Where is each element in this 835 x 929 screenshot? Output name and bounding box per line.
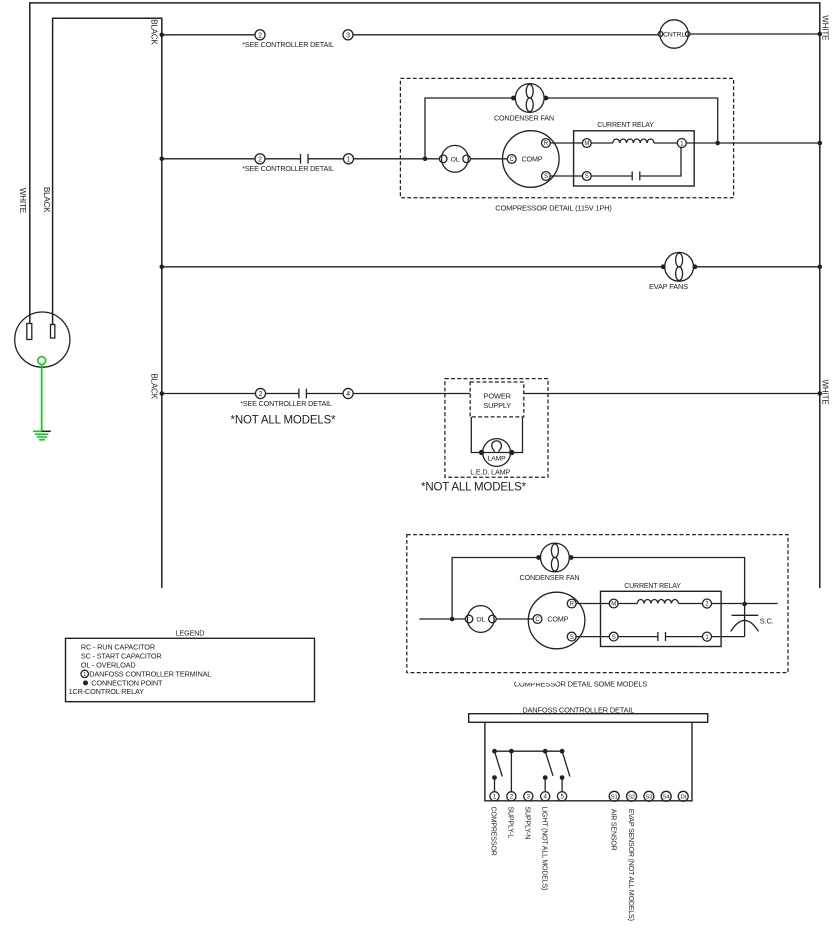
wire S to start capacitor (some models) (618, 636, 657, 638)
wire contact to terminal 4 (544, 778, 546, 792)
wire bus to terminal 2 (510, 751, 512, 792)
svg-text:CURRENT RELAY: CURRENT RELAY (597, 122, 654, 129)
svg-text:S.C.: S.C. (760, 616, 774, 625)
switch blade terminal 1 (495, 751, 503, 776)
legend item connection point (83, 678, 163, 687)
node condenser fan left (511, 96, 516, 101)
svg-text:COMPRESSOR: COMPRESSOR (490, 807, 497, 856)
wire coil to relay terminal 1 (654, 142, 677, 144)
plug P1 neutral blade (27, 324, 32, 340)
svg-text:CONNECTION POINT: CONNECTION POINT (91, 678, 163, 687)
svg-text:*NOT ALL MODELS*: *NOT ALL MODELS* (231, 414, 337, 426)
relay terminal S (some models) (609, 632, 618, 641)
node evap fans left (661, 264, 666, 269)
svg-text:OL: OL (451, 156, 460, 163)
svg-text:S3: S3 (646, 795, 653, 801)
capacitor SC (relay start contact) (632, 171, 640, 180)
relay terminal M (582, 139, 591, 148)
wire M to coil (some models) (618, 603, 637, 605)
legend item danfoss controller terminal (81, 669, 211, 678)
node switch contact terminal 5 (560, 775, 565, 780)
svg-text:M: M (611, 602, 616, 608)
relay terminal 2 (some models) (703, 599, 712, 608)
compressor COMP (some models) (528, 592, 585, 649)
svg-text:S2: S2 (628, 795, 635, 801)
controller terminal 2 (rung1) (255, 30, 265, 40)
controller terminal DI (678, 791, 688, 801)
wire rung2 left segment (162, 158, 255, 160)
wire S to start capacitor (591, 175, 632, 177)
wire capacitor to relay terminal 1 (640, 148, 681, 177)
dashed box POWER SUPPLY (470, 382, 524, 417)
wire stub left (some models) (419, 618, 465, 620)
capacitor (relay start contact, some models) (658, 632, 666, 641)
node lamp left (479, 450, 484, 455)
controller terminal S1 (609, 791, 619, 801)
svg-text:DI: DI (680, 795, 686, 801)
node rung4 / black rail junction (160, 391, 165, 396)
node bus above terminal 4 (543, 749, 548, 754)
svg-text:COMPRESSOR DETAIL (115V 1PH): COMPRESSOR DETAIL (115V 1PH) (495, 204, 611, 213)
node condenser fan right (some models) (569, 555, 574, 560)
motor EVAP FANS (665, 252, 694, 281)
svg-text:S: S (585, 174, 589, 180)
controller terminal 3 (rung1) (343, 30, 353, 40)
svg-text:3: 3 (346, 32, 350, 39)
contact 1CR (rung2) (301, 154, 309, 164)
svg-text:OL - OVERLOAD: OL - OVERLOAD (81, 661, 136, 670)
contact 1CR (rung4) (299, 389, 307, 399)
wire BLACK feed (plug to top corner to drop) (53, 18, 162, 588)
node condenser fan / run wire junction (715, 141, 720, 146)
svg-text:M: M (584, 141, 589, 147)
svg-text:LEGEND: LEGEND (176, 629, 205, 638)
node condenser fan left (some models) (536, 555, 541, 560)
svg-text:4: 4 (346, 391, 350, 398)
wire rung1 to control (354, 34, 658, 36)
wire terminal4 to power supply (354, 393, 471, 395)
motor CONDENSER FAN (115V) (515, 84, 544, 113)
wire condenser fan branch right (some models) (571, 558, 745, 605)
svg-text:1: 1 (347, 156, 351, 163)
svg-text:EVAP FANS: EVAP FANS (649, 282, 688, 291)
wire contact to terminal4 (307, 393, 343, 395)
svg-text:2: 2 (510, 794, 514, 801)
wire relay 1 to white rail (686, 142, 820, 144)
wire rung3 left segment (162, 266, 663, 268)
controller terminal S3 (644, 791, 654, 801)
wire contact to terminal 1 (494, 778, 496, 792)
capacitor S.C. start capacitor (731, 604, 759, 637)
label POWER SUPPLY (483, 392, 511, 411)
svg-text:1: 1 (705, 635, 709, 641)
plug P1 ground pin (38, 357, 46, 365)
controller terminal 1 (rung2) (343, 154, 353, 164)
svg-text:5: 5 (560, 794, 564, 801)
node lamp right (509, 450, 514, 455)
controller terminal 2 (rung2) (255, 154, 265, 164)
node rung1 / white rail junction (818, 32, 823, 37)
svg-text:CONDENSER FAN: CONDENSER FAN (494, 113, 554, 122)
dashed box LED lamp detail (445, 379, 548, 478)
overload OL (439, 145, 470, 172)
wire power supply to white rail (524, 393, 820, 395)
wire terminal1 to OL (354, 158, 440, 160)
plug P1 body (15, 312, 70, 367)
controller terminal 2 (507, 792, 516, 801)
node rung4 / white rail junction (818, 391, 823, 396)
wire rung2 to contact (266, 158, 301, 160)
node rung1 / black rail junction (160, 33, 165, 38)
svg-text:3: 3 (527, 794, 531, 801)
wire OL to COMP C (some models) (496, 618, 533, 620)
node condenser-fan branch (rung2) (423, 157, 428, 162)
controller terminal 4 (541, 792, 550, 801)
relay terminal S (582, 172, 591, 181)
node start capacitor junction (some models) (742, 602, 747, 607)
box CURRENT RELAY (some models) (601, 591, 722, 646)
controller U1 body (485, 722, 692, 801)
svg-text:BLACK: BLACK (42, 187, 51, 213)
svg-text:*SEE CONTROLLER DETAIL: *SEE CONTROLLER DETAIL (242, 164, 334, 173)
svg-text:SUPPLY-L: SUPPLY-L (507, 807, 514, 839)
wire rung1 left segment (162, 34, 255, 36)
plug P1 hot blade (51, 325, 55, 339)
ground symbol (33, 431, 51, 440)
node rung3 / white rail junction (818, 265, 823, 270)
svg-text:S4: S4 (663, 795, 671, 801)
svg-text:SUPPLY-N: SUPPLY-N (524, 807, 531, 840)
svg-text:LAMP: LAMP (488, 456, 507, 463)
switch blade terminal 5 (562, 751, 570, 776)
svg-text:SUPPLY: SUPPLY (483, 401, 511, 410)
wire rung3 right segment (695, 266, 820, 268)
wire COMP S to relay S (550, 175, 582, 177)
motor CONDENSER FAN (some models) (541, 543, 570, 572)
svg-text:WHITE: WHITE (821, 380, 830, 405)
svg-text:2: 2 (258, 32, 262, 39)
wire condenser fan branch right (546, 98, 718, 143)
svg-text:S: S (612, 635, 616, 641)
controller terminal 4 (rung4) (343, 388, 353, 398)
svg-text:WHITE: WHITE (821, 15, 830, 40)
svg-text:OL: OL (476, 617, 485, 624)
wire M to coil (591, 142, 613, 144)
svg-text:DANFOSS CONTROLLER TERMINAL: DANFOSS CONTROLLER TERMINAL (89, 669, 211, 678)
box CURRENT RELAY (115V) (574, 131, 695, 186)
svg-text:*SEE CONTROLLER DETAIL: *SEE CONTROLLER DETAIL (240, 399, 332, 408)
node evap fans right (693, 264, 698, 269)
controller terminal S4 (661, 791, 671, 801)
node condenser fan right (544, 96, 549, 101)
svg-text:2: 2 (259, 391, 263, 398)
wire internal bus (controller) (495, 750, 563, 752)
wire rung4 to contact (266, 393, 298, 395)
svg-text:SC - START CAPACITOR: SC - START CAPACITOR (81, 652, 162, 661)
wire contact to terminal1 (309, 158, 344, 160)
node bus above terminal 1 (492, 749, 497, 754)
wire WHITE rail (left vertical, top, right vertical) (30, 3, 820, 588)
node condenser-fan branch (some models) (450, 617, 455, 622)
svg-text:BLACK: BLACK (150, 19, 159, 45)
switch blade terminal 4 (545, 751, 553, 776)
node switch contact terminal 4 (543, 775, 548, 780)
svg-text:S1: S1 (611, 795, 618, 801)
wire rung1 to white rail (690, 33, 820, 35)
relay terminal 1 (677, 139, 686, 148)
wire COMP R to relay M (some models) (576, 603, 609, 605)
controller terminal 5 (558, 792, 567, 801)
svg-text:2: 2 (705, 602, 709, 608)
relay coil (some models) (637, 600, 678, 604)
wire ground (green) (41, 365, 43, 432)
lamp LED L.E.D. LAMP (483, 439, 511, 467)
controller terminal 3 (524, 792, 533, 801)
svg-text:POWER: POWER (484, 392, 511, 401)
node rung2 / white rail junction (818, 141, 823, 146)
svg-text:1: 1 (493, 794, 497, 801)
wire power supply to lamp (left leg) (471, 417, 522, 453)
svg-text:L.E.D. LAMP: L.E.D. LAMP (470, 467, 510, 476)
wire capacitor to relay terminal 1 (some models) (666, 636, 703, 638)
control relay CNTRL (658, 20, 690, 48)
svg-text:LIGHT (NOT ALL MODELS): LIGHT (NOT ALL MODELS) (540, 807, 547, 891)
svg-text:S: S (570, 635, 574, 641)
svg-text:COMP: COMP (522, 155, 543, 164)
box legend (66, 638, 315, 701)
wire rung4 left segment (162, 393, 255, 395)
svg-text:CNTRL: CNTRL (663, 32, 685, 39)
wire relay 2 to stub right (some models) (712, 603, 778, 605)
node bus above terminal 2 (509, 749, 514, 754)
node bus above terminal 5 (560, 749, 565, 754)
svg-text:EVAP SENSOR (NOT ALL MODELS): EVAP SENSOR (NOT ALL MODELS) (627, 809, 634, 921)
svg-text:CURRENT RELAY: CURRENT RELAY (624, 583, 681, 590)
controller terminal 2 (rung4) (255, 388, 265, 398)
svg-text:4: 4 (544, 794, 548, 801)
overload OL (some models) (465, 606, 496, 633)
relay coil (current relay 1) (613, 139, 654, 143)
dashed box COMPRESSOR DETAIL (115V 1PH) (400, 78, 733, 197)
svg-text:BLACK: BLACK (150, 374, 159, 400)
wire condenser fan branch left (some models) (452, 558, 538, 620)
svg-text:WHITE: WHITE (18, 188, 27, 213)
svg-text:*NOT ALL MODELS*: *NOT ALL MODELS* (421, 481, 527, 493)
svg-text:1: 1 (83, 672, 86, 678)
svg-text:AIR SENSOR: AIR SENSOR (609, 809, 616, 851)
svg-text:RC - RUN CAPACITOR: RC - RUN CAPACITOR (81, 643, 155, 652)
wire contact to terminal 5 (561, 778, 563, 792)
compressor COMP (115V) (503, 131, 560, 188)
wire relay 1 to S.C. (some models) (712, 636, 745, 638)
relay terminal M (some models) (609, 599, 618, 608)
svg-text:1CR-CONTROL RELAY: 1CR-CONTROL RELAY (69, 687, 145, 696)
relay terminal 1 (some models) (703, 632, 712, 641)
wire COMP R to relay M (550, 142, 582, 144)
controller terminal 1 (490, 792, 499, 801)
wire COMP S to relay S (some models) (576, 636, 609, 638)
node switch contact terminal 1 (492, 775, 497, 780)
svg-text:COMP: COMP (547, 615, 568, 624)
svg-text:DANFOSS CONTROLLER DETAIL: DANFOSS CONTROLLER DETAIL (522, 705, 634, 714)
node rung3 / black rail junction (160, 265, 165, 270)
controller terminal S2 (627, 791, 637, 801)
wire condenser fan branch left (425, 98, 513, 159)
svg-text:*SEE CONTROLLER DETAIL: *SEE CONTROLLER DETAIL (242, 40, 334, 49)
wire OL to COMP C (470, 158, 507, 160)
controller U1 top bar (469, 714, 708, 723)
svg-text:CONDENSER FAN: CONDENSER FAN (520, 573, 580, 582)
svg-text:S: S (544, 174, 548, 180)
wire coil to relay terminal 2 (some models) (678, 603, 702, 605)
dashed box COMPRESSOR DETAIL SOME MODELS (407, 535, 788, 673)
svg-text:2: 2 (258, 156, 262, 163)
node rung2 / black rail junction (160, 157, 165, 162)
